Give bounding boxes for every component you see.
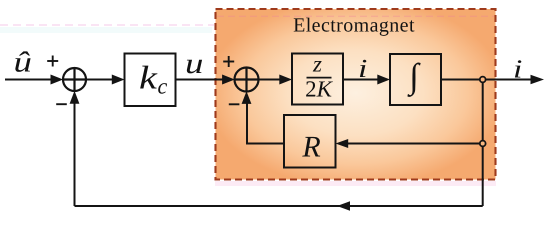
label i mid [358,54,367,83]
svg-text:u: u [185,48,203,80]
arrowhead into sum1 [51,75,64,85]
wire: integrator to output [441,79,532,81]
node on R branch [480,141,486,147]
label u [185,48,203,80]
block z/2K [292,54,343,105]
wire: sum2 to z2K [258,79,282,81]
svg-text:û: û [14,47,32,79]
svg-text:k: k [139,61,159,97]
block integrator [390,54,441,105]
svg-text:R: R [301,131,320,164]
svg-text:z: z [312,52,322,77]
arrowhead into integrator [377,75,390,85]
wire: corner up to sum2 [246,100,248,145]
node on main line [480,77,486,83]
svg-text:i: i [513,55,522,84]
plus sign sum1 [47,56,58,67]
block kc [125,54,176,107]
pale pink band under box [215,181,496,186]
arrowhead into sum2 [222,75,235,85]
faint pink dashed artifact line left of box [0,24,214,26]
electromagnet box [216,9,496,180]
svg-text:Electromagnet: Electromagnet [293,15,415,37]
svg-text:c: c [158,74,168,99]
minus sign sum1 [56,103,67,105]
svg-text:i: i [358,54,367,83]
plus sign sum2 [223,56,234,67]
wire: R output to corner [247,143,284,145]
wire: input line [5,79,52,81]
minus sign sum2 [229,103,240,105]
arrowhead into kc [112,75,125,85]
faint cyan artifact band [0,27,212,33]
label i out [513,55,522,84]
wire: node to R [346,143,483,145]
svg-text:2K: 2K [305,77,334,102]
wire: z2K to integrator [343,79,380,81]
output arrowhead [531,75,545,85]
wire: bottom feedback horizontal [75,205,483,207]
label kc [139,61,159,97]
wire: vertical from node down [482,80,484,207]
arrowhead into R [336,139,349,148]
wire: sum1 to kc [86,79,114,81]
pink ghost dash line inside box top [217,15,494,17]
summing junction sum2 [235,68,259,92]
label u-hat [14,47,32,79]
arrowhead into z2K [279,75,292,85]
arrowhead up into sum1 [70,91,80,104]
fraction bar [307,77,332,79]
wire: left feedback vertical [74,100,76,206]
mid arrowhead on feedback [337,201,350,210]
summing junction sum1 [63,68,86,91]
block R [284,115,336,168]
arrowhead up into sum2 [242,91,252,104]
wire: kc to sum2 [176,79,225,81]
